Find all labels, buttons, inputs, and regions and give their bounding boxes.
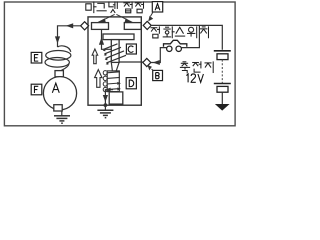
hold-in coil D winding: [103, 71, 120, 92]
ground (solenoid): [97, 105, 113, 118]
ignition switch: [164, 40, 187, 51]
wire: winding to B terminal: [119, 61, 143, 63]
field coil E: [45, 46, 71, 71]
moving contact plate (T): [103, 34, 134, 40]
motor lower brush terminal: [54, 105, 62, 111]
left fixed contact: [92, 23, 109, 30]
node: right-top terminal diamond: [143, 21, 151, 29]
motor upper brush terminal: [55, 71, 63, 77]
label box F: [31, 84, 42, 95]
plunger body: [107, 71, 119, 92]
magnet switch housing box: [88, 17, 141, 105]
node: right-mid terminal diamond (B): [143, 58, 151, 66]
label box A: [148, 2, 163, 22]
label: battery (축전지 12V): [183, 61, 186, 63]
ground (battery, chassis triangle): [215, 92, 230, 110]
label box B: [148, 65, 163, 81]
wire: switch to B terminal: [151, 48, 167, 63]
plunger funnel neck: [111, 62, 119, 71]
pull-in coil C winding: [103, 44, 126, 65]
fixed core block: [109, 92, 123, 104]
wire: switch to battery wire: [181, 25, 199, 47]
battery 12V: [214, 51, 231, 92]
label box D: [126, 78, 136, 89]
wire: right contact to battery +: [151, 25, 222, 49]
hollow up arrow 1: [92, 49, 98, 64]
ground (motor): [54, 111, 70, 123]
armature / motor A: [43, 77, 76, 110]
wire: winding end to ground: [105, 90, 113, 105]
label: ignition switch (점화스위치): [151, 27, 157, 29]
label box C: [126, 44, 136, 54]
node: left terminal diamond: [81, 22, 89, 30]
wire: left diamond to field coil: [58, 26, 81, 47]
wire: left contact to pull-in winding: [102, 30, 112, 50]
border frame: [4, 2, 235, 126]
plunger stem: [111, 40, 119, 63]
label box E: [31, 52, 42, 63]
right fixed contact: [124, 23, 141, 30]
arrow on wire (down): [55, 36, 60, 43]
arrow on wire (left): [66, 23, 73, 28]
label: magnet contact (마그넷 접점): [86, 2, 144, 22]
hollow up arrow 2: [95, 70, 102, 88]
